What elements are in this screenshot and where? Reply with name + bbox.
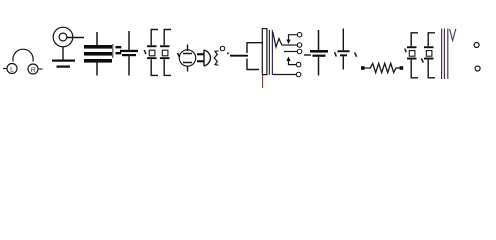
core tail wire bbox=[262, 75, 264, 88]
tap arrow up bbox=[286, 57, 290, 62]
secondary wire 3 bbox=[284, 51, 297, 53]
winding V bbox=[450, 29, 456, 41]
terminal 2 bbox=[297, 43, 302, 48]
crystal Y1 top lead bbox=[151, 30, 158, 46]
crystal Y1 plates and body bbox=[147, 45, 157, 59]
tube V1 cathode bbox=[183, 62, 192, 64]
terminal 1 bbox=[297, 32, 302, 37]
terminal circle bbox=[220, 46, 225, 51]
terminal circle bbox=[474, 43, 479, 48]
terminal 3 bbox=[297, 49, 302, 54]
capacitor C2 bottom lead bbox=[128, 56, 130, 75]
capacitor C1 plates bbox=[84, 45, 112, 63]
capacitor C3 top lead bbox=[318, 30, 320, 50]
dot bbox=[405, 49, 406, 53]
transformer T1 winding bbox=[273, 32, 282, 47]
plug P1 body bbox=[204, 50, 210, 66]
wire vertical bbox=[447, 29, 449, 80]
terminal 4 bbox=[296, 62, 301, 67]
transformer tap wire 1 bbox=[289, 35, 298, 40]
capacitor C4 bottom lead bbox=[342, 56, 344, 69]
phono jack J1 outer shell bbox=[53, 27, 73, 47]
core box bbox=[262, 29, 267, 75]
crystal Y1 bottom lead bbox=[151, 59, 158, 75]
tap arrow bbox=[286, 40, 290, 45]
tube V1 bottom lead bbox=[187, 66, 189, 72]
comma bbox=[421, 59, 423, 63]
bottom wire 5 bbox=[273, 74, 296, 76]
capacitor C4 plates bbox=[338, 50, 350, 56]
capacitor C1 top lead bbox=[96, 32, 98, 46]
tube V1 envelope bbox=[179, 50, 195, 66]
comma bbox=[178, 53, 180, 57]
resistor R1 right terminal bbox=[400, 66, 404, 70]
transformer T1 core bbox=[269, 30, 272, 75]
switch plate wire bbox=[230, 55, 248, 57]
svg-text:R: R bbox=[31, 67, 36, 74]
switch bottom contact bbox=[247, 59, 259, 70]
tube V1 top lead bbox=[187, 45, 189, 52]
secondary wire 2 bbox=[282, 44, 297, 46]
ground bbox=[52, 60, 75, 68]
comma bbox=[144, 50, 146, 54]
capacitor C2 plates bbox=[120, 50, 138, 56]
plug P1 pins bbox=[197, 53, 204, 62]
crystal Y4 top lead bbox=[428, 33, 435, 47]
core lines bbox=[442, 29, 445, 80]
node bar right of C1 bbox=[112, 44, 114, 58]
switch top contact bbox=[247, 43, 262, 53]
svg-text:L: L bbox=[10, 66, 14, 73]
wire stub bbox=[304, 54, 311, 56]
socket contact bbox=[214, 51, 218, 65]
crystal Y2 top lead bbox=[164, 30, 171, 46]
dot bbox=[227, 53, 229, 55]
capacitor C4 top lead bbox=[342, 29, 344, 51]
comma bbox=[335, 52, 337, 57]
crystal Y4 plates and body bbox=[424, 46, 434, 59]
crystal Y3 bottom lead bbox=[411, 60, 418, 78]
capacitor C3 bottom lead bbox=[318, 57, 320, 76]
crystal Y4 bottom lead bbox=[428, 60, 435, 78]
terminal 5 bbox=[296, 72, 301, 77]
wire jack to ground bbox=[62, 47, 64, 60]
capacitor C1 bottom lead bbox=[96, 62, 98, 76]
tap wire 4 bbox=[289, 61, 297, 65]
tube V1 plate bbox=[183, 53, 192, 55]
apostrophe bbox=[355, 53, 357, 57]
crystal Y2 bottom lead bbox=[164, 59, 171, 75]
headphone band wire bbox=[13, 49, 33, 61]
capacitor C3 plates bbox=[310, 50, 328, 57]
capacitor C2 top lead bbox=[128, 31, 130, 50]
resistor R1 body bbox=[365, 63, 400, 72]
crystal Y3 plates and body bbox=[407, 46, 417, 59]
phono jack J1 center pin bbox=[59, 33, 67, 41]
headphone speaker R bbox=[28, 64, 43, 74]
wire from center pin bbox=[67, 37, 84, 39]
terminal circle bbox=[475, 66, 480, 71]
trimmer plates bbox=[116, 46, 122, 54]
crystal Y2 plates and body bbox=[160, 45, 170, 59]
headphone speaker L bbox=[3, 64, 17, 74]
crystal Y3 top lead bbox=[411, 33, 418, 47]
resistor R1 left terminal bbox=[361, 66, 365, 70]
